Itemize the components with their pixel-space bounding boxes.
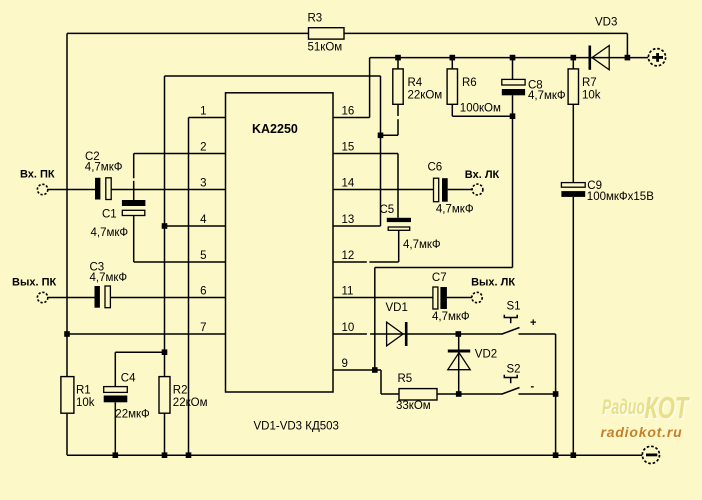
wire left mid vertical x164 xyxy=(164,76,166,377)
svg-text:C1: C1 xyxy=(102,209,117,221)
wire to R5 left xyxy=(381,393,399,395)
svg-text:C4: C4 xyxy=(121,373,136,385)
svg-text:14: 14 xyxy=(342,178,355,190)
node R3/bus junction xyxy=(625,55,631,61)
switch S1 xyxy=(502,315,520,334)
node R7/bus junction xyxy=(571,55,577,61)
svg-text:13: 13 xyxy=(342,214,355,226)
wire R1 bottom lead xyxy=(66,413,68,455)
wire C8 top lead xyxy=(512,58,514,80)
wire right vertical x380 xyxy=(380,76,382,226)
node VD2/pin10 junction xyxy=(456,331,462,337)
resistor R5 xyxy=(399,389,437,400)
svg-text:4,7мкФ: 4,7мкФ xyxy=(90,272,128,284)
wire pin13 stub xyxy=(333,225,381,227)
svg-text:100кОм: 100кОм xyxy=(460,103,501,115)
node C9/bus junction xyxy=(571,452,577,458)
wire pin12 stub a xyxy=(333,261,367,263)
svg-text:22кОм: 22кОм xyxy=(408,90,443,102)
capacitor C4 xyxy=(104,373,150,421)
wire R4 bottom lead lower xyxy=(397,119,399,135)
wire top feedback left segment xyxy=(67,32,309,34)
wire pin10 through VD1 to S1 xyxy=(370,333,502,335)
output PK terminal xyxy=(37,292,47,302)
diode VD2 xyxy=(448,349,497,370)
wire top feedback right segment xyxy=(344,32,627,34)
wire C9 to minus bus xyxy=(572,197,574,455)
wire pin1 stub xyxy=(189,117,226,119)
LK output terminal xyxy=(472,292,482,302)
svg-text:R5: R5 xyxy=(398,373,413,385)
svg-text:Вых. ЛК: Вых. ЛК xyxy=(471,277,515,289)
wire pin5 stub xyxy=(134,261,226,263)
wire pin10 stub a xyxy=(333,333,367,335)
svg-text:1: 1 xyxy=(200,106,206,118)
wire R6 bottom lead xyxy=(451,104,453,116)
svg-text:4,7мкФ: 4,7мкФ xyxy=(528,90,566,102)
svg-text:4,7мкФ: 4,7мкФ xyxy=(403,239,441,251)
wire S2 to right drop xyxy=(519,393,556,395)
node pin9/x374 junction xyxy=(372,367,378,373)
node S2/x555 junction xyxy=(553,391,559,397)
diode VD1 xyxy=(386,302,408,346)
svg-text:VD2: VD2 xyxy=(475,349,497,361)
wire pin2 drop lower to C1 xyxy=(133,181,135,200)
svg-text:R2: R2 xyxy=(173,385,188,397)
capacitor C7 xyxy=(432,272,470,323)
wire R7 to C9 xyxy=(572,104,574,182)
svg-text:4,7мкФ: 4,7мкФ xyxy=(85,161,123,173)
wire C4 bottom lead xyxy=(114,402,116,455)
svg-text:VD1: VD1 xyxy=(386,302,408,314)
node C4/x164 junction xyxy=(162,349,168,355)
node R4/bus junction xyxy=(395,55,401,61)
wire input PK terminal to C2 xyxy=(47,189,95,191)
wire C1 bottom to pin5 xyxy=(133,216,135,263)
wire pin2 drop upper xyxy=(133,154,135,179)
svg-text:S2: S2 xyxy=(507,364,521,376)
capacitor C8 xyxy=(502,79,566,102)
svg-text:10: 10 xyxy=(342,322,355,334)
svg-text:Вх. ЛК: Вх. ЛК xyxy=(465,169,500,181)
wire R6 top lead xyxy=(451,58,453,69)
svg-text:4: 4 xyxy=(200,214,207,226)
capacitor C2 xyxy=(85,151,123,200)
svg-text:3: 3 xyxy=(200,178,206,190)
node R2/bus junction xyxy=(162,452,168,458)
wire pin7 stub xyxy=(67,333,226,335)
svg-text:51кОм: 51кОм xyxy=(308,42,343,54)
wire pin2 stub xyxy=(134,153,226,155)
wire C6 to LK input terminal xyxy=(448,189,473,191)
svg-text:C7: C7 xyxy=(432,272,447,284)
resistor R1 xyxy=(61,377,74,414)
node pin4/x164 junction xyxy=(162,223,168,229)
wire R2 bottom lead xyxy=(164,413,166,455)
wire C8 return horizontal xyxy=(375,267,513,269)
resistor R6 xyxy=(447,69,457,104)
wire C7 to LK output terminal xyxy=(447,297,472,299)
svg-text:2: 2 xyxy=(200,142,206,154)
wire drop to plus bus xyxy=(626,33,628,57)
svg-text:Радио: Радио xyxy=(602,395,645,419)
svg-text:R7: R7 xyxy=(582,77,597,89)
wire pin15 stub xyxy=(333,153,398,155)
LK input terminal xyxy=(472,184,483,195)
svg-text:radiokot.ru: radiokot.ru xyxy=(601,424,683,440)
capacitor C3 xyxy=(90,262,128,308)
svg-text:S1: S1 xyxy=(507,301,521,313)
wire R7 top lead xyxy=(572,58,574,69)
svg-text:КОТ: КОТ xyxy=(645,390,691,425)
svg-text:R3: R3 xyxy=(308,13,323,25)
svg-text:R4: R4 xyxy=(408,77,423,89)
svg-text:5: 5 xyxy=(200,250,206,262)
svg-text:KA2250: KA2250 xyxy=(252,122,298,136)
capacitor C9 xyxy=(561,180,654,203)
svg-text:4,7мкФ: 4,7мкФ xyxy=(91,227,129,239)
resistor R2 xyxy=(159,377,170,414)
svg-text:4,7мкФ: 4,7мкФ xyxy=(432,311,470,323)
svg-text:22кОм: 22кОм xyxy=(173,397,208,409)
node C8/bus junction xyxy=(510,55,516,61)
wire pin14 to C6 xyxy=(333,189,434,191)
wire R4 bottom lead upper xyxy=(397,104,399,116)
wire minus ground bus xyxy=(67,454,642,456)
svg-text:R1: R1 xyxy=(76,385,91,397)
svg-text:C6: C6 xyxy=(428,161,443,173)
svg-text:Вх. ПК: Вх. ПК xyxy=(20,169,55,181)
svg-text:R6: R6 xyxy=(462,77,477,89)
svg-text:7: 7 xyxy=(200,322,206,334)
resistor R7 xyxy=(568,69,578,104)
resistor R3 xyxy=(309,28,345,39)
wire VD2 through lead xyxy=(458,334,460,394)
capacitor C5 xyxy=(380,204,441,251)
svg-text:10k: 10k xyxy=(76,397,95,409)
node R6/bus junction xyxy=(450,55,456,61)
wire C5 bottom to pin12 xyxy=(398,230,400,262)
junction node dots xyxy=(64,55,630,458)
wire C3 to pin6 xyxy=(111,297,226,299)
node C4/bus junction xyxy=(113,452,119,458)
wire pin16 riser xyxy=(369,58,371,118)
wire pin11 to C7 xyxy=(333,297,433,299)
node R6/C8 junction xyxy=(510,113,516,119)
wire C4 top horizontal xyxy=(115,351,164,353)
svg-text:33кОм: 33кОм xyxy=(396,400,431,412)
minus terminal xyxy=(642,446,659,463)
wire pin15 to C5 top xyxy=(397,154,399,218)
wire C4 top lead xyxy=(114,352,116,386)
input PK terminal xyxy=(37,184,47,194)
wire left vertical x188 xyxy=(188,118,190,456)
wire pin4 stub xyxy=(165,225,226,227)
wire C2 to pin3 xyxy=(111,189,225,191)
svg-text:10k: 10k xyxy=(582,90,601,102)
svg-text:4,7мкФ: 4,7мкФ xyxy=(436,203,474,215)
wire R5 right to S2 xyxy=(437,393,503,395)
wire x374 vertical to pin9 xyxy=(374,268,376,371)
wire plus supply bus xyxy=(370,57,649,59)
capacitor C1 xyxy=(91,200,146,239)
node pin7/x67 junction xyxy=(64,331,70,337)
svg-text:15: 15 xyxy=(342,142,355,154)
wire pin9 drop xyxy=(380,370,382,394)
node switches/bus junction xyxy=(553,452,559,458)
wire pin16 stub xyxy=(333,117,370,119)
node x188/bus junction xyxy=(186,452,192,458)
svg-text:Вых. ПК: Вых. ПК xyxy=(12,277,56,289)
svg-text:12: 12 xyxy=(342,250,355,262)
wire R6 to C8 column xyxy=(452,115,512,117)
svg-text:22мкФ: 22мкФ xyxy=(115,409,150,421)
svg-text:+: + xyxy=(530,317,536,329)
svg-text:9: 9 xyxy=(342,358,348,370)
capacitor C6 xyxy=(428,161,474,215)
wire S1 to right drop xyxy=(519,333,556,335)
svg-text:16: 16 xyxy=(342,106,355,118)
wire pin12 stub b xyxy=(369,261,398,263)
svg-text:11: 11 xyxy=(342,286,354,298)
svg-text:-: - xyxy=(531,381,535,393)
svg-text:VD1-VD3 КД503: VD1-VD3 КД503 xyxy=(254,421,339,433)
wire over IC top xyxy=(165,75,381,77)
node VD2/R5 junction xyxy=(456,391,462,397)
plus terminal xyxy=(648,49,665,66)
wire pin9 stub xyxy=(333,369,381,371)
svg-text:100мкФх15В: 100мкФх15В xyxy=(587,191,654,203)
svg-text:C5: C5 xyxy=(380,204,395,216)
IC U1 KA2250 body xyxy=(226,93,334,392)
watermark Radio KOT xyxy=(602,390,692,426)
resistor R4 xyxy=(393,69,403,104)
wire R4 to x380 xyxy=(381,134,399,136)
wire output PK terminal to C3 xyxy=(47,297,94,299)
node R4/x380 junction xyxy=(378,133,384,139)
diode VD3 xyxy=(590,17,618,70)
wire C8 bottom lead xyxy=(512,95,514,267)
svg-text:6: 6 xyxy=(200,286,206,298)
switch S2 xyxy=(502,375,520,394)
wire R4 top lead xyxy=(397,58,399,69)
wire left vertical x67 xyxy=(66,33,68,376)
svg-text:VD3: VD3 xyxy=(595,17,617,29)
wire switch drop x555 xyxy=(555,334,557,455)
